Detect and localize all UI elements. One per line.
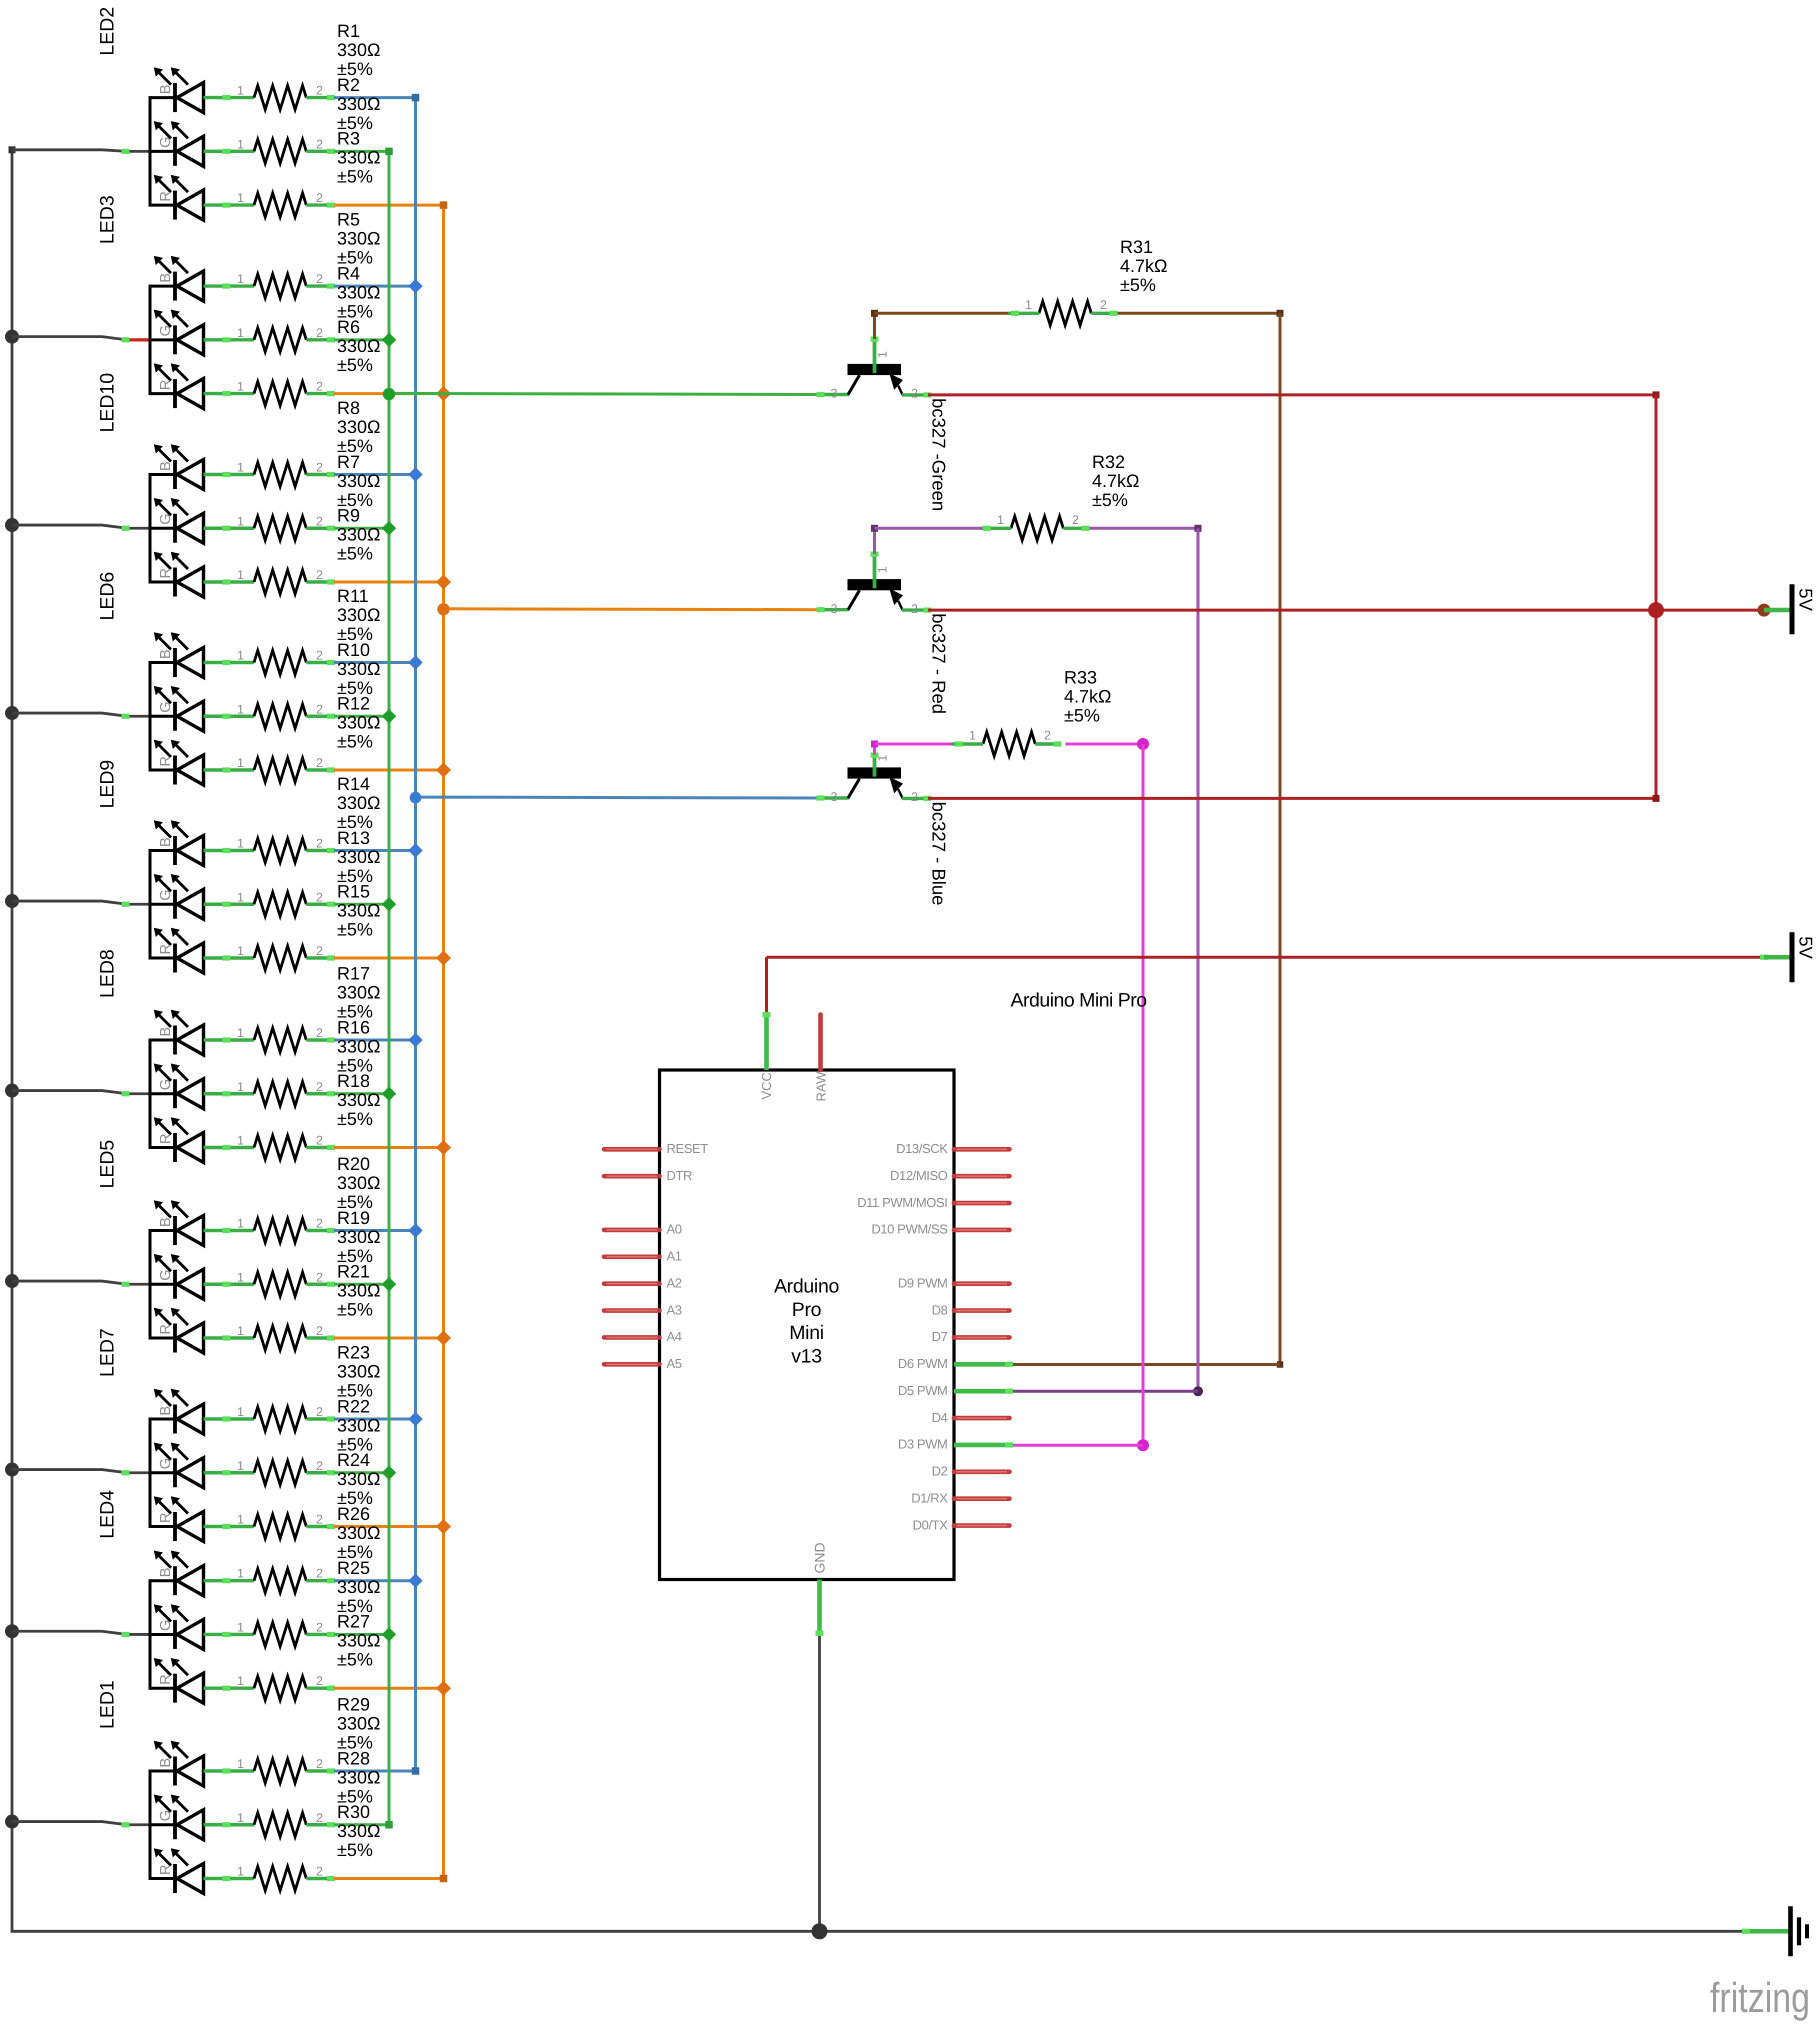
RGB LED LED1 [97,1680,255,1893]
wire R17 to bus [334,1039,416,1042]
svg-text:LED9: LED9 [97,760,119,809]
svg-text:R32: R32 [1092,452,1125,472]
svg-text:D5 PWM: D5 PWM [898,1383,948,1398]
resistor R13 330&#937; [237,828,381,917]
wire green bus to Q1 collector [389,393,820,394]
svg-text:1: 1 [997,513,1004,527]
svg-text:2: 2 [911,790,918,804]
resistor R28 330&#937; [237,1748,381,1837]
svg-text:GND: GND [812,1542,828,1573]
Arduino pin D9 PWM [898,1275,1010,1290]
junction green bus / wire to Q1 [383,388,395,400]
svg-text:R18: R18 [337,1071,370,1091]
Arduino pin D0/TX [913,1517,1010,1532]
junction GND wire / ground bus [812,1923,828,1939]
junction ground bus / LED9 common wire [5,894,19,908]
wire ground bus bottom horizontal [11,1930,1746,1933]
svg-text:2: 2 [316,84,323,98]
svg-text:330Ω: 330Ω [337,1469,381,1489]
svg-text:3: 3 [831,387,838,401]
wire R25 to bus [334,1633,389,1636]
svg-text:330Ω: 330Ω [337,605,381,625]
svg-text:±5%: ±5% [1092,490,1128,510]
svg-text:LED10: LED10 [97,373,119,433]
svg-text:G: G [158,1458,174,1469]
Arduino pin A4 [604,1329,682,1344]
svg-text:LED5: LED5 [97,1140,119,1189]
wire R3 to bus [334,204,444,207]
resistor R17 330&#937; [237,964,381,1053]
RGB LED LED5 [97,1140,255,1353]
svg-text:2: 2 [316,649,323,663]
resistor R16 330&#937; [237,1017,381,1106]
wire R24 to bus [334,1525,444,1528]
svg-text:±5%: ±5% [337,1300,373,1320]
svg-text:2: 2 [316,1026,323,1040]
wire LED7 common pin to ground bus [12,1470,151,1476]
svg-text:Pro: Pro [792,1299,822,1321]
svg-text:330Ω: 330Ω [337,229,381,249]
svg-text:2: 2 [316,1134,323,1148]
svg-text:R21: R21 [337,1262,370,1282]
svg-text:A5: A5 [667,1356,682,1371]
wire LED10 common pin to ground bus [12,525,151,531]
wire blue bus to Q3 collector [416,796,821,800]
resistor R5 330&#937; [237,210,381,299]
svg-text:B: B [158,649,174,659]
Arduino pin D6 PWM [898,1356,1013,1371]
svg-text:LED1: LED1 [97,1680,119,1729]
5V power symbol (transistor emitters) [1764,584,1817,634]
junction orange bus / LED7 R row [436,1519,451,1534]
svg-text:2: 2 [316,380,323,394]
wire Q3 base to R33 pin1 (magenta) [871,741,952,756]
svg-text:330Ω: 330Ω [337,1227,381,1247]
svg-text:4.7kΩ: 4.7kΩ [1064,687,1111,707]
svg-text:R22: R22 [337,1396,370,1416]
wire R9 to bus [334,581,444,584]
svg-text:R14: R14 [337,774,370,794]
svg-text:D4: D4 [932,1410,948,1425]
svg-text:G: G [158,325,174,336]
svg-text:1: 1 [237,944,244,958]
svg-text:330Ω: 330Ω [337,1415,381,1435]
svg-text:D7: D7 [932,1329,948,1344]
svg-text:2: 2 [316,1811,323,1825]
junction ground bus / LED8 common wire [5,1084,19,1098]
Arduino pin A5 [604,1356,682,1371]
Arduino pin D5 PWM [898,1383,1013,1398]
wire R5 to bus [334,285,416,288]
svg-text:2: 2 [316,1324,323,1338]
resistor R22 330&#937; [237,1396,381,1485]
wire R30 to bus [334,1877,444,1880]
svg-text:1: 1 [237,1080,244,1094]
wire R7 to bus [334,527,389,530]
svg-text:R: R [158,191,174,201]
junction orange bus / LED10 R row [436,575,451,590]
svg-text:2: 2 [911,602,918,616]
svg-text:330Ω: 330Ω [337,40,381,60]
svg-text:330Ω: 330Ω [337,1714,381,1734]
resistor R24 330&#937; [237,1450,381,1539]
resistor R31 4.7k [1008,237,1167,325]
svg-text:1: 1 [237,272,244,286]
Arduino pin D2 [932,1464,1010,1479]
svg-text:2: 2 [316,461,323,475]
svg-text:G: G [158,701,174,712]
Arduino pin GND lead + wire to ground bus [816,1580,824,1932]
svg-text:B: B [158,84,174,94]
svg-text:R24: R24 [337,1450,370,1470]
Arduino pin D3 PWM [898,1437,1013,1452]
svg-text:330Ω: 330Ω [337,1821,381,1841]
svg-text:bc327 - Red: bc327 - Red [929,613,950,714]
svg-text:VCC: VCC [759,1072,774,1099]
resistor R19 330&#937; [237,1208,381,1297]
svg-text:2: 2 [1100,298,1107,312]
svg-text:D13/SCK: D13/SCK [896,1141,948,1156]
wire R27 to bus [334,1687,444,1690]
svg-text:D3 PWM: D3 PWM [898,1437,948,1452]
svg-text:1: 1 [237,1757,244,1771]
junction orange bus / LED8 R row [436,1140,451,1155]
svg-text:R11: R11 [337,586,369,606]
svg-text:1: 1 [237,1026,244,1040]
junction green bus / LED7 G row [382,1466,396,1480]
wire ground bus left vertical [9,146,16,1931]
svg-text:1: 1 [237,1134,244,1148]
ground symbol [1742,1906,1807,1956]
junction green bus / LED9 G row [382,897,396,911]
svg-text:B: B [158,1568,174,1578]
svg-text:A2: A2 [667,1275,682,1290]
svg-text:R31: R31 [1120,237,1153,257]
green bus wire (D-green net) [385,148,393,1829]
RGB LED LED8 [97,949,255,1162]
svg-text:D2: D2 [932,1464,948,1479]
svg-text:±5%: ±5% [337,732,373,752]
svg-text:2: 2 [316,326,323,340]
transistor Q1 bc327 -Green [817,337,950,512]
svg-text:R20: R20 [337,1154,370,1174]
wire orange bus to Q2 collector [444,607,821,611]
resistor R26 330&#937; [237,1504,381,1593]
svg-text:4.7kΩ: 4.7kΩ [1120,256,1167,276]
junction blue bus / LED7 B row [408,1412,422,1426]
Arduino pin RAW lead [818,1015,823,1071]
svg-text:1: 1 [237,326,244,340]
svg-text:2: 2 [316,1405,323,1419]
wire R12 to bus [334,769,444,772]
resistor R20 330&#937; [237,1154,381,1243]
svg-text:B: B [158,1758,174,1768]
svg-text:LED2: LED2 [97,7,119,56]
svg-text:1: 1 [876,755,890,762]
svg-text:LED6: LED6 [97,572,119,621]
wire R2 to bus [334,150,389,153]
svg-text:R: R [158,1674,174,1684]
svg-text:R1: R1 [337,21,360,41]
RGB LED LED10 [97,373,255,597]
svg-text:±5%: ±5% [337,544,373,564]
svg-text:1: 1 [237,137,244,151]
junction blue bus / LED5 B row [408,1223,422,1237]
svg-text:DTR: DTR [667,1168,693,1183]
svg-text:R: R [158,756,174,766]
svg-text:R33: R33 [1064,668,1097,688]
svg-text:R19: R19 [337,1208,370,1228]
Arduino pin A2 [604,1275,682,1290]
svg-text:1: 1 [237,1620,244,1634]
svg-text:1: 1 [237,1270,244,1284]
svg-text:2: 2 [316,1270,323,1284]
Arduino pin A1 [604,1249,682,1264]
resistor R1 330&#937; [237,21,381,110]
5V power symbol (VCC) [1764,932,1817,982]
svg-text:LED8: LED8 [97,949,119,998]
wire Q3 emitter to 5V vertical (dark red) [928,795,1660,802]
svg-text:R17: R17 [337,964,370,984]
svg-text:1: 1 [237,514,244,528]
resistor R3 330&#937; [237,129,381,218]
wire R31 pin2 to D6 (brown) [1010,310,1284,1368]
junction orange bus / wire to Q2 [437,603,449,615]
svg-text:D8: D8 [932,1302,948,1317]
svg-text:1: 1 [237,1459,244,1473]
junction blue bus / wire to Q3 [410,792,422,804]
junction ground bus / LED5 common wire [5,1274,19,1288]
svg-text:G: G [158,1810,174,1821]
wire R15 to bus [334,957,444,960]
svg-text:330Ω: 330Ω [337,1362,381,1382]
junction green bus / LED6 G row [382,709,396,723]
svg-text:D10 PWM/SS: D10 PWM/SS [871,1222,948,1237]
svg-text:R9: R9 [337,506,360,526]
Arduino pin D10 PWM/SS [871,1222,1009,1237]
svg-text:2: 2 [316,944,323,958]
RGB LED LED7 [97,1328,255,1541]
svg-text:1: 1 [237,1405,244,1419]
junction ground bus / LED4 common wire [5,1624,19,1638]
svg-text:3: 3 [831,790,838,804]
junction blue bus / LED4 B row [408,1574,422,1588]
svg-text:2: 2 [316,702,323,716]
svg-text:1: 1 [876,566,890,573]
svg-text:R13: R13 [337,828,370,848]
svg-text:bc327 -Green: bc327 -Green [929,398,950,511]
Arduino pin D4 [932,1410,1010,1425]
svg-text:330Ω: 330Ω [337,1173,381,1193]
wire 5V vertical (dark red) [1655,394,1658,797]
junction orange bus / LED3 R row [436,386,451,401]
RGB LED LED4 [97,1490,255,1703]
svg-text:±5%: ±5% [1064,706,1100,726]
svg-text:1: 1 [237,702,244,716]
junction orange bus / LED5 R row [436,1331,451,1346]
resistor R30 330&#937; [237,1802,381,1891]
svg-text:R15: R15 [337,882,370,902]
blue bus wire (D-blue net) [412,94,420,1775]
svg-text:1: 1 [237,1513,244,1527]
wire R14 to bus [334,849,416,852]
junction green bus / LED5 G row [382,1277,396,1291]
svg-text:330Ω: 330Ω [337,471,381,491]
svg-text:R4: R4 [337,263,360,283]
wire Arduino VCC to 5V symbol (dark red) [767,955,1769,1015]
svg-text:v13: v13 [791,1345,822,1367]
svg-text:R: R [158,1865,174,1875]
svg-text:G: G [158,513,174,524]
resistor R4 330&#937; [237,263,381,352]
wire R4 to bus [334,338,389,341]
svg-text:R: R [158,1134,174,1144]
resistor R18 330&#937; [237,1071,381,1160]
junction 5V net [1648,602,1664,618]
resistor R11 330&#937; [237,586,381,675]
svg-text:RESET: RESET [667,1141,709,1156]
svg-text:R2: R2 [337,75,360,95]
svg-text:D9 PWM: D9 PWM [898,1275,948,1290]
transistor Q2 bc327 - Red [817,552,950,715]
svg-text:B: B [158,1027,174,1037]
svg-text:330Ω: 330Ω [337,1523,381,1543]
svg-text:330Ω: 330Ω [337,1577,381,1597]
junction green bus / LED3 G row [382,333,396,347]
svg-text:2: 2 [1044,729,1051,743]
svg-text:±5%: ±5% [337,1650,373,1670]
resistor R8 330&#937; [237,398,381,487]
wire R19 to bus [334,1283,389,1286]
svg-text:R12: R12 [337,694,370,714]
svg-text:LED3: LED3 [97,195,119,244]
junction orange bus / LED4 R row [436,1681,451,1696]
svg-text:330Ω: 330Ω [337,659,381,679]
svg-text:G: G [158,137,174,148]
wire R26 to bus [334,1579,416,1582]
RGB LED LED6 [97,572,255,785]
svg-text:2: 2 [316,1567,323,1581]
wire R23 to bus [334,1418,416,1421]
svg-text:2: 2 [316,137,323,151]
svg-text:R10: R10 [337,640,370,660]
svg-text:A1: A1 [667,1249,682,1264]
wire R20 to bus [334,1229,416,1232]
resistor R29 330&#937; [237,1695,381,1784]
svg-text:R16: R16 [337,1017,370,1037]
svg-text:±5%: ±5% [337,355,373,375]
Arduino Pro Mini module [660,990,1148,1580]
Arduino pin D13/SCK [896,1141,1009,1156]
svg-text:2: 2 [316,890,323,904]
svg-text:A4: A4 [667,1329,682,1344]
resistor R27 330&#937; [237,1612,381,1701]
svg-text:D0/TX: D0/TX [913,1517,949,1532]
svg-text:5V: 5V [1796,936,1817,959]
svg-text:2: 2 [316,1459,323,1473]
svg-text:R29: R29 [337,1695,370,1715]
wire R29 to bus [334,1770,416,1773]
svg-text:330Ω: 330Ω [337,847,381,867]
svg-text:B: B [158,1406,174,1416]
svg-text:Arduino: Arduino [774,1276,840,1298]
svg-text:G: G [158,889,174,900]
svg-text:1: 1 [1025,298,1032,312]
svg-text:330Ω: 330Ω [337,94,381,114]
svg-text:2: 2 [316,514,323,528]
junction wire end at 5V symbol [1758,604,1771,617]
svg-text:B: B [158,1217,174,1227]
junction blue bus / LED9 B row [408,843,422,857]
resistor R7 330&#937; [237,452,381,541]
resistor R25 330&#937; [237,1558,381,1647]
svg-text:D11 PWM/MOSI: D11 PWM/MOSI [857,1195,947,1210]
svg-text:330Ω: 330Ω [337,793,381,813]
svg-text:2: 2 [316,1674,323,1688]
svg-text:330Ω: 330Ω [337,417,381,437]
svg-text:2: 2 [911,387,918,401]
svg-text:D1/RX: D1/RX [911,1490,948,1505]
svg-text:A3: A3 [667,1302,682,1317]
svg-text:1: 1 [876,351,890,358]
svg-text:2: 2 [316,1080,323,1094]
svg-text:R: R [158,944,174,954]
svg-text:Arduino Mini Pro: Arduino Mini Pro [1011,990,1148,1012]
svg-text:±5%: ±5% [337,167,373,187]
junction ground bus / LED3 common wire [5,330,19,344]
svg-text:G: G [158,1269,174,1280]
svg-text:B: B [158,837,174,847]
orange bus wire (D-red net) [440,201,448,1882]
svg-text:330Ω: 330Ω [337,282,381,302]
svg-text:330Ω: 330Ω [337,148,381,168]
Arduino pin A3 [604,1302,682,1317]
junction blue bus / LED6 B row [408,655,422,669]
svg-text:A0: A0 [667,1222,682,1237]
svg-text:B: B [158,273,174,283]
wire R8 to bus [334,473,416,476]
junction blue bus / LED3 B row [408,279,422,293]
svg-text:1: 1 [237,756,244,770]
svg-text:2: 2 [1072,513,1079,527]
svg-text:RAW: RAW [814,1071,829,1102]
wire LED8 common pin to ground bus [12,1091,151,1097]
svg-text:1: 1 [237,568,244,582]
svg-text:R5: R5 [337,210,360,230]
Arduino pin D7 [932,1329,1010,1344]
junction ground bus / LED6 common wire [5,706,19,720]
svg-text:fritzing: fritzing [1710,1974,1810,2021]
svg-text:1: 1 [237,191,244,205]
junction orange bus / LED6 R row [436,763,451,778]
resistor R21 330&#937; [237,1262,381,1351]
svg-text:2: 2 [316,837,323,851]
svg-text:2: 2 [316,756,323,770]
wire R6 to bus [334,392,444,395]
svg-text:R25: R25 [337,1558,370,1578]
wire R16 to bus [334,1092,389,1095]
wire R1 to bus [334,96,416,99]
resistor R32 4.7k [980,452,1139,541]
svg-text:330Ω: 330Ω [337,901,381,921]
Arduino pin DTR [604,1168,692,1183]
wire LED6 common pin to ground bus [12,713,151,719]
wire LED3 common pin to ground bus [12,337,151,343]
junction orange bus / LED9 R row [436,951,451,966]
svg-text:LED4: LED4 [97,1490,119,1539]
svg-text:1: 1 [237,84,244,98]
junction ground bus / LED7 common wire [5,1463,19,1477]
